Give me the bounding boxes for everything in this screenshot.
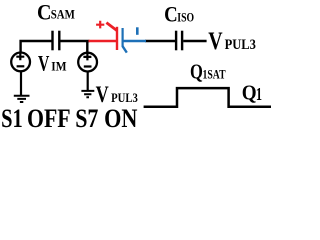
svg-text:SAM: SAM bbox=[51, 8, 75, 22]
svg-text:ISO: ISO bbox=[177, 12, 194, 25]
svg-text:IM: IM bbox=[51, 59, 66, 73]
svg-text:Q: Q bbox=[242, 82, 257, 105]
svg-text:S7: S7 bbox=[75, 104, 98, 132]
svg-text:1: 1 bbox=[256, 86, 262, 104]
svg-text:S1: S1 bbox=[1, 105, 23, 132]
svg-text:V: V bbox=[38, 52, 49, 76]
svg-text:Q: Q bbox=[190, 61, 203, 84]
svg-text:OFF: OFF bbox=[27, 104, 71, 132]
svg-text:PUL3: PUL3 bbox=[225, 36, 256, 52]
svg-text:1SAT: 1SAT bbox=[203, 69, 227, 82]
svg-text:V: V bbox=[208, 27, 223, 55]
svg-text:C: C bbox=[164, 3, 178, 27]
svg-text:ON: ON bbox=[104, 104, 138, 132]
svg-text:C: C bbox=[37, 0, 51, 25]
